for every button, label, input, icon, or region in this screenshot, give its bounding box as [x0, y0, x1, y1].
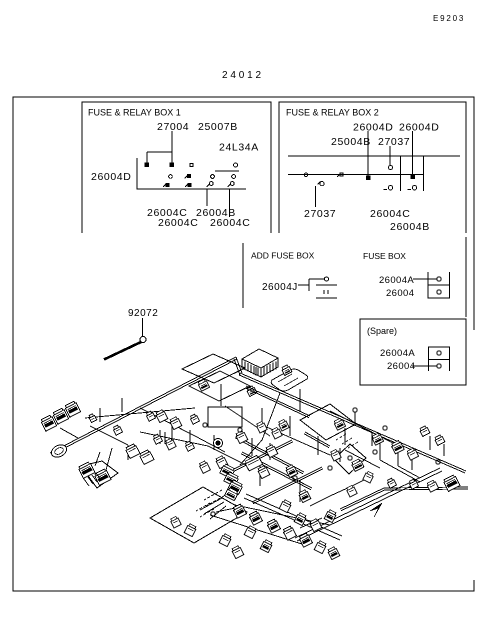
contact circle: [320, 182, 324, 186]
connector: [125, 443, 140, 458]
branch wire: [236, 460, 252, 468]
terminal circle: [437, 277, 441, 281]
ring terminal: [383, 426, 387, 430]
tick: [228, 184, 231, 187]
connector: [152, 434, 162, 445]
wire: [215, 170, 239, 172]
svg-text:E9203: E9203: [433, 14, 465, 23]
divider wire: [400, 156, 402, 191]
ring terminal: [203, 423, 207, 427]
svg-text:26004B: 26004B: [390, 221, 430, 233]
connector: [371, 433, 383, 445]
branch wire: [262, 425, 330, 455]
svg-text:24012: 24012: [222, 70, 264, 81]
tick: [185, 184, 188, 187]
wire loop: [81, 461, 118, 488]
branch wire: [261, 408, 263, 424]
contact square: [366, 176, 370, 180]
connector: [197, 379, 209, 391]
connector: [281, 364, 292, 375]
branch wire: [189, 430, 191, 444]
connector: [169, 416, 182, 429]
wire loop: [182, 354, 245, 383]
branch wire: [429, 436, 431, 450]
connector: [346, 485, 357, 497]
ring terminal: [211, 512, 215, 516]
relay block component: [242, 349, 278, 377]
branch wire: [208, 446, 236, 460]
leader wire: [412, 131, 414, 175]
connector: [278, 419, 289, 431]
terminal circle: [437, 351, 441, 355]
svg-text:26004D: 26004D: [399, 122, 439, 134]
fuse box symbol: [428, 272, 450, 298]
contact square: [145, 163, 148, 166]
harness wire: [235, 436, 304, 474]
svg-text:26004C: 26004C: [210, 217, 250, 229]
branch wire: [159, 430, 161, 444]
terminal circle: [437, 290, 441, 294]
branch wire: [300, 518, 322, 528]
connector: [215, 455, 228, 468]
branch wire: [330, 486, 352, 496]
connector: [330, 449, 341, 461]
leader wire: [206, 189, 208, 206]
contact circle: [211, 175, 215, 179]
wire loop: [300, 404, 356, 440]
fuse &amp; relay box 2 outline: [279, 102, 466, 233]
ring terminal: [348, 456, 352, 460]
connector: [426, 480, 438, 492]
contact circle: [209, 182, 213, 186]
ring terminal: [436, 460, 440, 464]
svg-text:92072: 92072: [128, 308, 158, 319]
ring terminal: [238, 428, 242, 432]
connector: [248, 511, 262, 526]
connector: [184, 441, 194, 452]
branch wire: [244, 498, 340, 540]
connector: [94, 468, 111, 485]
connector: [327, 546, 340, 559]
branch wire: [225, 406, 270, 436]
divider wire: [423, 156, 425, 191]
tick: [408, 189, 412, 191]
contact circle: [304, 173, 308, 177]
branch wire: [85, 408, 195, 418]
tape hatch marks: [84, 473, 101, 486]
lower trunk wire with arrow: [295, 468, 442, 541]
svg-text:26004: 26004: [386, 288, 414, 299]
wire loop: [334, 444, 366, 474]
branch wire: [371, 432, 373, 446]
branch wire: [235, 505, 330, 525]
connector: [408, 479, 418, 490]
leader wire: [147, 151, 172, 153]
contact square: [166, 183, 169, 186]
wire loop: [208, 407, 242, 427]
trunk bend wire: [234, 357, 242, 375]
connector: [199, 460, 211, 473]
ring terminal: [328, 466, 332, 470]
branch wire: [299, 389, 301, 412]
harness wire: [241, 452, 312, 490]
connector: [112, 425, 122, 436]
connector: [363, 471, 374, 483]
branch wire: [210, 506, 226, 519]
contact square open: [340, 173, 343, 176]
connector: [386, 478, 396, 489]
branch wire: [213, 435, 215, 450]
harness wire: [340, 488, 385, 511]
connector: [265, 444, 278, 457]
fuse &amp; relay box 1 outline: [82, 102, 271, 233]
contact square: [170, 163, 173, 166]
branch wire: [171, 419, 173, 440]
connector: [244, 525, 257, 538]
connector: [266, 519, 280, 534]
leader wire: [412, 365, 437, 367]
branch wire: [352, 476, 372, 486]
branch wire: [204, 502, 224, 514]
connector: [64, 401, 80, 417]
terminal circle: [437, 364, 441, 368]
svg-text:26004J: 26004J: [262, 282, 298, 293]
branch wire: [262, 393, 280, 440]
outer frame border: [13, 97, 474, 591]
arrowhead: [370, 503, 382, 517]
connector: [406, 448, 418, 460]
svg-text:26004C: 26004C: [158, 217, 198, 229]
harness wire: [245, 386, 310, 418]
harness trunk wire: [50, 357, 237, 455]
connector: [298, 533, 312, 548]
branch wire: [121, 398, 123, 412]
round connector: [49, 442, 68, 459]
branch wire: [127, 445, 129, 460]
ring terminal: [293, 476, 297, 480]
tick: [207, 184, 210, 187]
branch wire: [344, 428, 346, 445]
spare box outline: [360, 319, 466, 385]
harness trunk wire: [239, 373, 466, 473]
connector: [220, 464, 235, 479]
connector: [256, 421, 267, 433]
add fuse symbol: [298, 279, 337, 298]
branch wire: [140, 432, 208, 446]
svg-text:26004: 26004: [387, 361, 415, 372]
contact square: [188, 175, 191, 178]
leader wire: [413, 278, 437, 280]
contact circle: [230, 182, 234, 186]
svg-text:26004A: 26004A: [380, 348, 415, 359]
branch wire: [398, 466, 420, 478]
branch wire: [310, 496, 330, 506]
connector: [419, 425, 430, 436]
connector: [314, 540, 327, 553]
branch wire: [220, 384, 222, 406]
branch wire: [200, 498, 222, 510]
fuse box 2 rail: [288, 174, 424, 176]
connector: [228, 480, 243, 495]
connector: [333, 418, 345, 430]
contact circle: [169, 175, 173, 179]
spare fuse symbol: [429, 347, 450, 371]
connector: [88, 413, 97, 422]
svg-text:ADD FUSE BOX: ADD FUSE BOX: [251, 251, 315, 261]
branch wire: [99, 408, 101, 422]
svg-text:27004: 27004: [157, 121, 189, 133]
contact square: [411, 175, 415, 179]
connector: [298, 489, 311, 502]
branch wire: [164, 432, 166, 444]
branch wire: [246, 494, 342, 536]
connector: [139, 449, 154, 464]
branch wire: [352, 422, 395, 444]
harness wire: [252, 467, 323, 504]
connector: [391, 440, 405, 454]
connector: [246, 385, 257, 396]
connector: [235, 430, 248, 443]
svg-text:27037: 27037: [378, 136, 410, 148]
connector: [40, 415, 56, 431]
connector: [145, 411, 155, 422]
connector: [351, 458, 364, 471]
branch wire: [259, 466, 261, 486]
connector: [324, 509, 337, 522]
leader wire: [229, 189, 231, 217]
oval connector: [244, 455, 262, 471]
branch wire: [397, 451, 399, 466]
connector: [225, 487, 239, 500]
connector: [443, 474, 460, 491]
contact circle: [232, 175, 236, 179]
contact circle: [388, 186, 392, 190]
connector: [184, 523, 197, 536]
connector: [231, 545, 244, 558]
connector: [224, 472, 239, 487]
tick: [163, 184, 166, 187]
bolt head: [140, 337, 146, 343]
branch wire: [411, 456, 413, 470]
round connector: [213, 438, 222, 447]
branch wire: [90, 426, 128, 445]
branch wire: [379, 436, 381, 460]
branch wire: [317, 436, 319, 455]
contact circle: [412, 186, 416, 190]
svg-text:26004D: 26004D: [91, 171, 131, 183]
svg-text:25007B: 25007B: [198, 121, 238, 133]
connector: [78, 461, 95, 478]
connector: [165, 438, 176, 450]
contact circle: [389, 166, 393, 170]
svg-text:25004B: 25004B: [331, 136, 371, 148]
bolt pointer arrow: [104, 342, 141, 360]
tick: [337, 174, 340, 177]
connector: [232, 504, 246, 519]
connector: [282, 526, 296, 541]
wire loop: [150, 487, 247, 543]
branch wire: [354, 412, 356, 426]
leader wire: [367, 131, 369, 176]
branch wire: [299, 480, 301, 502]
connector: [257, 465, 270, 478]
branch wire: [140, 408, 195, 436]
branch wire: [195, 436, 225, 452]
leader wire: [142, 318, 144, 336]
branch wire: [251, 438, 253, 456]
contact square: [188, 183, 191, 186]
harness wire: [228, 440, 293, 474]
relay box 1 axis: [137, 158, 246, 189]
wire loop: [189, 371, 250, 401]
ring terminal: [373, 450, 377, 454]
branch wire: [269, 443, 271, 460]
svg-text:26004A: 26004A: [379, 275, 414, 286]
connector: [260, 539, 273, 552]
svg-text:FUSE & RELAY BOX 1: FUSE & RELAY BOX 1: [88, 108, 181, 118]
contact circle: [234, 163, 238, 167]
connector: [155, 409, 168, 422]
branch wire: [210, 515, 305, 545]
leader wire: [389, 146, 391, 166]
branch wire: [339, 448, 341, 462]
leader wire: [315, 186, 317, 207]
tick: [384, 189, 388, 191]
harness wire: [304, 432, 330, 448]
branch wire: [330, 411, 372, 432]
tick: [185, 175, 188, 178]
connector: [52, 408, 68, 424]
connector: [219, 533, 232, 546]
tick: [318, 182, 321, 185]
svg-text:FUSE BOX: FUSE BOX: [363, 251, 406, 261]
fuse box 2 rail: [288, 155, 460, 157]
harness wire: [384, 487, 468, 490]
svg-text:(Spare): (Spare): [367, 326, 397, 336]
branch wire: [240, 440, 262, 465]
connector: [279, 499, 292, 512]
branch wire: [95, 452, 100, 466]
bracket component: [271, 369, 308, 391]
leader wire: [171, 131, 173, 163]
dashed wire fan: [196, 434, 358, 517]
connector: [294, 512, 307, 525]
branch wire: [289, 416, 291, 436]
svg-text:24L34A: 24L34A: [219, 142, 259, 154]
connector: [271, 427, 282, 439]
branch wire: [380, 460, 420, 482]
branch wire: [443, 444, 445, 456]
contact square open: [190, 164, 193, 167]
branch wire: [60, 428, 78, 438]
terminal circle: [324, 277, 328, 281]
section divider: [465, 237, 467, 317]
branch wire: [106, 448, 112, 470]
connector: [309, 518, 322, 531]
svg-text:26004D: 26004D: [353, 122, 393, 134]
branch wire: [345, 450, 380, 468]
section divider: [242, 243, 244, 308]
ring terminal: [353, 408, 357, 412]
connector: [170, 516, 181, 528]
svg-text:27037: 27037: [304, 208, 336, 220]
svg-text:FUSE & RELAY BOX 2: FUSE & RELAY BOX 2: [286, 108, 379, 118]
connector: [189, 414, 199, 425]
leader wire: [146, 152, 148, 163]
connector: [285, 464, 298, 477]
branch wire: [216, 507, 240, 512]
connector: [434, 434, 445, 445]
svg-text:26004C: 26004C: [370, 208, 410, 220]
